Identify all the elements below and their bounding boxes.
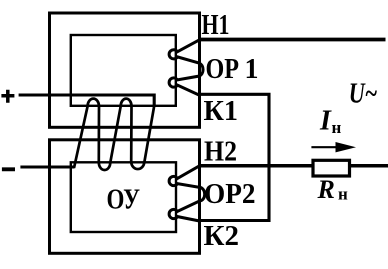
svg-text:U~: U~ <box>349 78 378 109</box>
svg-text:ОР: ОР <box>206 54 240 85</box>
svg-text:ОУ: ОУ <box>107 185 141 216</box>
svg-text:К2: К2 <box>204 221 240 252</box>
svg-text:К1: К1 <box>204 96 239 127</box>
svg-text:ОР2: ОР2 <box>204 179 256 210</box>
svg-text:R: R <box>317 175 335 204</box>
svg-text:Н2: Н2 <box>204 137 237 168</box>
svg-text:н: н <box>332 118 342 137</box>
svg-text:н: н <box>338 185 348 204</box>
svg-text:Н1: Н1 <box>202 10 230 41</box>
svg-text:I: I <box>319 106 332 137</box>
svg-text:1: 1 <box>245 54 259 85</box>
